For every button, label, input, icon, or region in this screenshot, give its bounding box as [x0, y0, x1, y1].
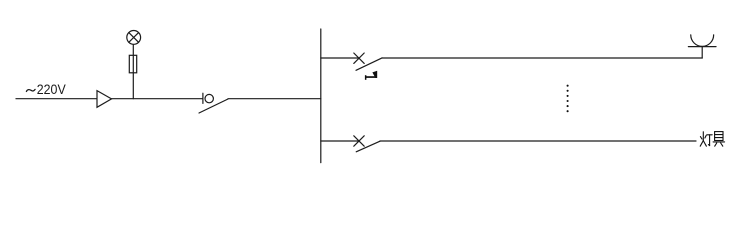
wire: circuit N from busbar — [321, 140, 359, 142]
label 灯具 — [700, 132, 724, 147]
wire: incoming feeder left segment — [16, 98, 97, 100]
svg-text:220V: 220V — [37, 81, 66, 97]
wire: lamp drop — [701, 47, 703, 58]
switch QS fixed contact tick — [202, 93, 204, 103]
wire: feeder from triangle to switch — [112, 98, 203, 100]
wire: circuit 1 run to lamp — [382, 57, 702, 59]
wire: circuit 1 from busbar — [321, 57, 359, 59]
fuse FU — [129, 55, 136, 73]
busbar — [320, 29, 322, 163]
lamp holder symbol — [688, 35, 716, 47]
wire: circuit N run — [380, 140, 696, 142]
circuit N switch blade — [356, 141, 380, 152]
indicator lamp (circle with X) — [127, 31, 141, 45]
switch QS blade — [199, 99, 228, 113]
wire: switch to busbar — [228, 98, 321, 100]
circuit 1 cross mark — [354, 53, 364, 63]
switch QS hinge circle — [205, 94, 213, 102]
circuit N cross mark — [354, 136, 364, 146]
label ~220V — [26, 81, 66, 97]
wire: indicator branch riser — [132, 44, 134, 98]
ellipsis dots — [567, 85, 569, 113]
label 1 (rotated digit) — [365, 71, 377, 80]
circuit 1 switch blade — [356, 58, 382, 70]
incoming supply mark (triangle) — [97, 91, 112, 108]
